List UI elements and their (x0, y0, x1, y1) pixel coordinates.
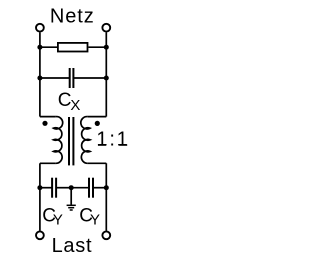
node junction left at Cx row (37, 76, 42, 81)
wire Cx left lead (40, 77, 70, 79)
svg-text:X: X (70, 97, 80, 114)
terminal bottom-right (102, 231, 110, 239)
polarity dot right winding (95, 121, 100, 126)
wire right rail upper (terminal to choke) (105, 32, 107, 116)
wire resistor right lead (88, 46, 106, 48)
inductor L2 right winding of common-mode choke (81, 117, 90, 164)
wire Cy2 right lead (93, 187, 106, 189)
polarity dot left winding (42, 121, 47, 126)
wire ground stub (70, 188, 72, 205)
label CY2 value (79, 205, 100, 228)
capacitor CY2 plates (89, 178, 93, 198)
svg-text:1:1: 1:1 (96, 129, 129, 151)
wire choke bottom-right stub (88, 162, 107, 164)
node junction left at resistor row (37, 45, 42, 50)
svg-text:Y: Y (90, 212, 100, 229)
wire Cx right lead (73, 77, 106, 79)
terminal bottom-left (36, 231, 44, 239)
node ground junction (69, 185, 74, 190)
wire choke bottom-left stub (40, 162, 56, 164)
capacitor CY1 plates (52, 178, 56, 198)
capacitor CX plates (70, 68, 74, 88)
wire Cy1 to ground node (56, 187, 71, 189)
wire ground node to Cy2 (71, 187, 89, 189)
ground symbol (earth) (67, 205, 76, 210)
label CY1 value (42, 205, 63, 228)
terminal top-right (102, 24, 110, 32)
wire resistor left lead (40, 46, 57, 48)
svg-text:Y: Y (53, 212, 63, 229)
node junction right at resistor row (104, 45, 109, 50)
wire left rail lower (choke to terminal) (39, 163, 41, 230)
wire left rail upper (terminal to choke) (39, 32, 41, 116)
svg-text:Last: Last (52, 235, 93, 256)
inductor L1 left winding of common-mode choke (54, 117, 63, 164)
wire choke top-right stub (88, 116, 107, 118)
core of common-mode choke (two bars) (69, 117, 73, 165)
node junction left at Cy row (37, 185, 42, 190)
label CX value (58, 90, 81, 114)
svg-text:Netz: Netz (50, 5, 95, 27)
wire Cy1 left lead (40, 187, 52, 189)
wire choke top-left stub (40, 116, 56, 118)
node junction right at Cx row (104, 76, 109, 81)
node junction right at Cy row (104, 185, 109, 190)
resistor R (damping resistor) (58, 43, 88, 52)
wire right rail lower (choke to terminal) (105, 163, 107, 230)
terminal top-left (36, 24, 44, 32)
